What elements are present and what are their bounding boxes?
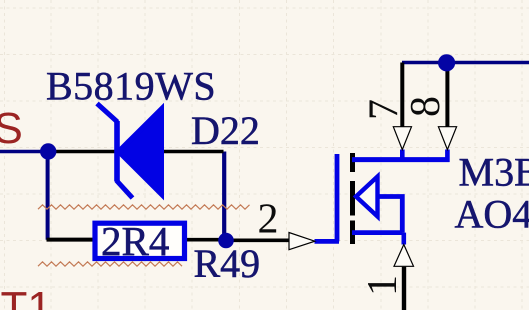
- channel bar middle: [350, 181, 355, 216]
- gate line: [335, 154, 340, 241]
- pin 7 line: [400, 63, 404, 127]
- pin 1 arrow: [394, 245, 414, 267]
- pin 8 arrow: [438, 127, 456, 150]
- svg-text:S: S: [0, 104, 23, 153]
- diode D22 schottky symbol: [97, 104, 162, 199]
- cathode bar: [114, 121, 120, 182]
- triangle: [119, 109, 162, 195]
- pin 7 arrow: [393, 127, 411, 150]
- body arrow: [356, 177, 378, 217]
- drain bar: [352, 157, 450, 162]
- source bar: [352, 230, 402, 235]
- wire left vertical: [46, 152, 50, 240]
- drain stub pin8: [445, 150, 450, 163]
- svg-text:B5819WS: B5819WS: [46, 64, 216, 109]
- resistor R49 right pin wire: [181, 238, 226, 242]
- wire S net: [0, 150, 49, 154]
- pin 2 arrow: [289, 233, 315, 250]
- pin 1 line: [402, 267, 406, 310]
- red error squiggle lower: [38, 262, 182, 266]
- gate pin stub: [315, 239, 340, 244]
- wire diode-right vertical: [222, 152, 226, 240]
- resistor R49 left pin wire: [47, 238, 96, 242]
- wire gate net: [225, 239, 289, 243]
- svg-text:AO44: AO44: [455, 191, 529, 236]
- red error squiggle upper: [38, 205, 250, 209]
- source stub pin1: [401, 233, 406, 245]
- channel bar top: [350, 153, 355, 172]
- junction dot R49/gate node: [218, 233, 234, 249]
- drain stub pin7: [400, 150, 405, 163]
- transistor M3B (N-channel MOSFET AO4...) symbol: [315, 150, 450, 245]
- diode D22 pins (wire): [49, 150, 224, 154]
- channel bar bottom: [350, 221, 355, 245]
- svg-text:2: 2: [258, 197, 279, 243]
- svg-text:1: 1: [360, 275, 406, 296]
- svg-text:M3B: M3B: [459, 149, 529, 194]
- wire top drain net: [402, 61, 529, 65]
- svg-text:7: 7: [362, 99, 408, 120]
- junction dot left (S node): [40, 143, 56, 159]
- svg-text:8: 8: [403, 96, 449, 117]
- junction dot drain node: [438, 54, 455, 71]
- svg-text:D22: D22: [191, 108, 260, 153]
- cathode top hook: [97, 104, 118, 123]
- body-source link: [378, 197, 403, 233]
- svg-text:T1: T1: [1, 283, 52, 310]
- resistor R49 body: [95, 223, 185, 258]
- pin 8 line: [445, 64, 449, 127]
- cathode bottom hook: [117, 181, 133, 199]
- svg-text:2R4: 2R4: [101, 218, 169, 264]
